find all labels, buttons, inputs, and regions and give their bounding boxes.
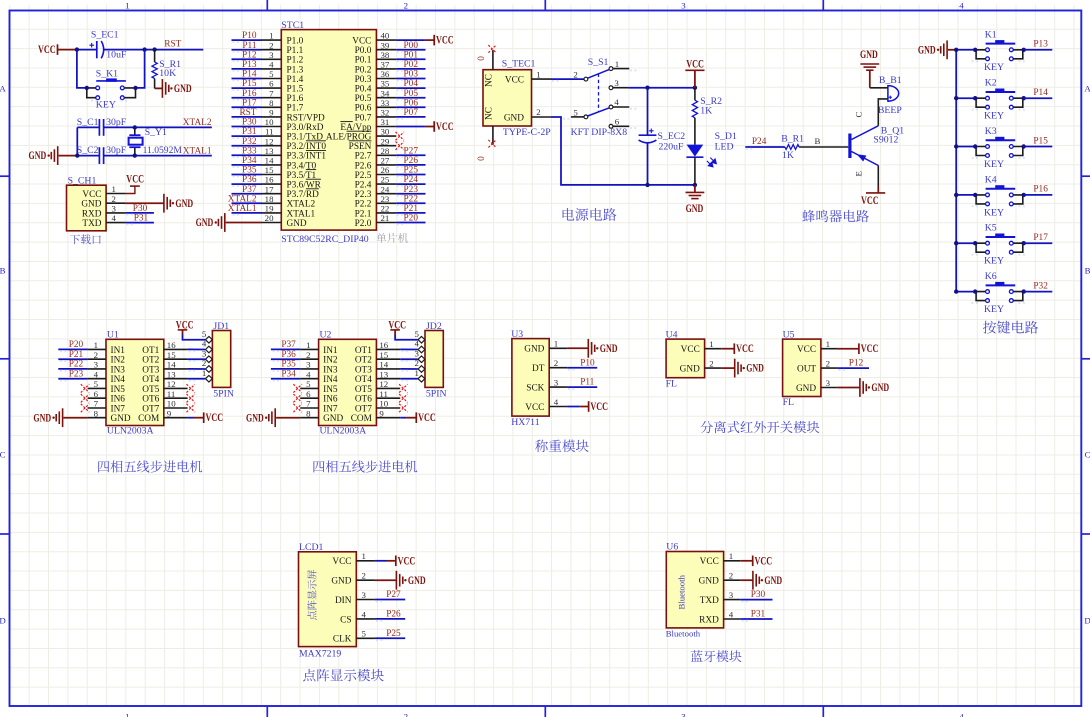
wire P16	[1024, 194, 1053, 196]
svg-text:30pF: 30pF	[106, 117, 127, 128]
svg-text:KEY: KEY	[96, 99, 116, 110]
svg-text:P16: P16	[242, 89, 257, 99]
svg-text:VCC: VCC	[525, 403, 544, 413]
junction	[954, 48, 958, 52]
svg-text:5PIN: 5PIN	[213, 389, 234, 400]
svg-text:P0.0: P0.0	[355, 46, 372, 56]
svg-text:P1.0: P1.0	[287, 37, 304, 47]
svg-text:P25: P25	[404, 166, 419, 176]
svg-text:5: 5	[573, 107, 578, 117]
svg-text:A: A	[1084, 83, 1090, 93]
STC1 left pins	[262, 31, 282, 223]
junction	[954, 96, 958, 100]
wire	[694, 118, 696, 145]
svg-text:22: 22	[381, 204, 390, 214]
svg-text:1: 1	[826, 339, 830, 349]
svg-text:OT2: OT2	[142, 356, 159, 366]
svg-text:IN4: IN4	[111, 375, 126, 385]
power port VCC (STC1 pin40)	[396, 35, 454, 47]
svg-text:P37: P37	[242, 185, 257, 195]
svg-text:P2.2: P2.2	[355, 200, 372, 210]
svg-text:P1.4: P1.4	[287, 75, 304, 85]
junction	[693, 183, 697, 187]
svg-text:CLK: CLK	[333, 635, 352, 645]
svg-text:4: 4	[959, 0, 964, 10]
svg-text:IN3: IN3	[323, 365, 338, 375]
label 称重模块	[535, 440, 589, 452]
svg-text:OT7: OT7	[142, 404, 159, 414]
transistor B_Q1 S9012	[848, 112, 904, 177]
svg-text:5: 5	[306, 379, 311, 389]
capacitor S_EC2	[639, 88, 686, 185]
STC1 right net wires and labels	[396, 41, 425, 225]
svg-text:P01: P01	[404, 50, 419, 60]
svg-text:OT3: OT3	[355, 365, 372, 375]
svg-text:10: 10	[167, 399, 176, 409]
svg-text:FL: FL	[666, 378, 677, 389]
junction	[1022, 144, 1026, 148]
svg-text:2: 2	[362, 571, 366, 581]
svg-text:A: A	[0, 83, 6, 93]
svg-text:36: 36	[381, 69, 390, 79]
svg-text:GND: GND	[699, 577, 719, 587]
svg-text:IN1: IN1	[323, 346, 338, 356]
svg-text:TYPE-C-2P: TYPE-C-2P	[503, 127, 551, 138]
svg-text:S_TEC1: S_TEC1	[502, 59, 536, 70]
svg-text:GND: GND	[174, 83, 192, 95]
svg-text:C: C	[854, 112, 864, 118]
ground GND (S_CH1 pin2)	[126, 194, 193, 213]
svg-text:6: 6	[269, 79, 274, 89]
junction	[1022, 48, 1026, 52]
module U4 FL	[666, 329, 722, 389]
svg-text:5PIN: 5PIN	[426, 389, 447, 400]
svg-text:28: 28	[381, 146, 390, 156]
svg-text:MAX7219: MAX7219	[299, 648, 341, 659]
junction	[142, 47, 146, 51]
svg-text:OT2: OT2	[355, 356, 372, 366]
junction	[973, 96, 977, 100]
junction	[133, 153, 137, 157]
svg-text:P16: P16	[1033, 185, 1048, 195]
svg-text:OT4: OT4	[142, 375, 159, 385]
svg-text:10: 10	[265, 117, 274, 127]
svg-text:15: 15	[379, 350, 388, 360]
svg-text:Bluetooth: Bluetooth	[666, 629, 701, 639]
svg-text:P2.7: P2.7	[355, 152, 372, 162]
svg-text:CS: CS	[340, 615, 351, 625]
svg-text:4: 4	[729, 609, 734, 619]
ground GND (U3 pin1)	[567, 339, 617, 358]
svg-text:IN1: IN1	[111, 346, 126, 356]
power port VCC (buzzer)	[861, 187, 885, 207]
svg-text:11: 11	[167, 389, 176, 399]
svg-text:C: C	[1085, 449, 1090, 459]
svg-text:25: 25	[381, 175, 390, 185]
svg-text:13: 13	[265, 146, 274, 156]
svg-text:9: 9	[167, 408, 172, 418]
wire P31	[740, 619, 772, 621]
STC1 right pins	[376, 31, 396, 223]
svg-text:16: 16	[167, 340, 176, 350]
svg-text:3: 3	[614, 78, 619, 88]
wire P31	[126, 223, 154, 225]
svg-text:10K: 10K	[159, 68, 176, 79]
svg-text:COM: COM	[351, 414, 372, 424]
svg-text:KEY: KEY	[984, 207, 1004, 218]
svg-text:OT5: OT5	[355, 385, 372, 395]
svg-text:P23: P23	[404, 185, 419, 195]
svg-text:P0.3: P0.3	[355, 75, 372, 85]
svg-text:P30: P30	[242, 118, 257, 128]
svg-text:RST: RST	[164, 40, 181, 50]
no-ERC markers outputs 12-10	[399, 384, 407, 412]
junction	[75, 153, 79, 157]
power port VCC (LCD1 pin1)	[375, 555, 415, 567]
svg-text:P21: P21	[69, 350, 84, 360]
ground GND (buzzer)	[860, 49, 879, 88]
svg-text:7: 7	[269, 88, 274, 98]
svg-text:P0.2: P0.2	[355, 65, 372, 75]
svg-text:GND: GND	[918, 44, 936, 56]
svg-text:VCC: VCC	[398, 555, 416, 567]
svg-text:8: 8	[269, 98, 274, 108]
svg-text:38: 38	[381, 50, 390, 60]
ground GND (U1 pin8)	[33, 408, 87, 427]
svg-text:P26: P26	[386, 610, 401, 620]
svg-text:11.0592M: 11.0592M	[143, 145, 183, 156]
svg-text:XTAL1: XTAL1	[183, 146, 212, 156]
S_TEC1 top pin with no-ERC	[488, 45, 496, 70]
svg-text:VCC: VCC	[755, 555, 773, 567]
svg-text:S_S1: S_S1	[588, 57, 609, 68]
svg-text:P0.6: P0.6	[355, 104, 372, 114]
svg-text:P24: P24	[404, 175, 419, 185]
svg-text:P04: P04	[404, 79, 419, 89]
svg-text:31: 31	[381, 117, 390, 127]
svg-text:2: 2	[269, 40, 273, 50]
svg-text:D: D	[1084, 615, 1090, 625]
svg-text:12: 12	[167, 379, 176, 389]
svg-text:ULN2003A: ULN2003A	[320, 425, 367, 436]
wire	[956, 97, 975, 99]
svg-text:30: 30	[381, 127, 390, 137]
svg-text:VCC: VCC	[418, 412, 436, 424]
svg-text:VCC: VCC	[861, 343, 879, 355]
svg-text:2: 2	[536, 107, 540, 117]
svg-text:2: 2	[554, 358, 558, 368]
svg-text:XTAL2: XTAL2	[228, 194, 257, 204]
svg-text:B: B	[0, 265, 6, 275]
svg-text:P13: P13	[1033, 40, 1048, 50]
svg-text:0: 0	[477, 56, 487, 61]
svg-text:P36: P36	[281, 350, 296, 360]
svg-text:P20: P20	[69, 340, 84, 350]
svg-text:13: 13	[167, 369, 176, 379]
svg-text:P25: P25	[386, 629, 401, 639]
svg-text:3: 3	[826, 378, 831, 388]
wire RST	[104, 49, 203, 51]
svg-text:BEEP: BEEP	[878, 105, 902, 116]
wire	[551, 79, 584, 81]
power port VCC (U3 pin4)	[567, 401, 608, 413]
wire	[136, 50, 145, 88]
svg-text:9: 9	[269, 108, 274, 118]
svg-text:P31: P31	[134, 214, 149, 224]
wire P17	[1024, 242, 1053, 244]
svg-text:33: 33	[381, 98, 390, 108]
key K1	[972, 29, 1027, 73]
svg-text:27: 27	[381, 156, 390, 166]
svg-text:RST/VPD: RST/VPD	[287, 113, 326, 123]
capacitor S_C2	[77, 145, 127, 164]
svg-text:1: 1	[615, 59, 619, 69]
svg-text:P11: P11	[580, 378, 594, 388]
key K2	[972, 78, 1027, 122]
svg-text:IN2: IN2	[111, 356, 126, 366]
svg-text:GND: GND	[871, 382, 889, 394]
junction	[645, 183, 649, 187]
svg-text:C: C	[0, 449, 6, 459]
svg-text:2: 2	[404, 712, 408, 717]
ground GND (U5 pin3)	[838, 378, 890, 397]
svg-text:VCC: VCC	[861, 195, 879, 207]
svg-text:P12: P12	[849, 359, 864, 369]
svg-text:S_Y1: S_Y1	[145, 127, 167, 138]
svg-text:26: 26	[381, 165, 390, 175]
label 电源电路	[563, 208, 617, 221]
ground GND (reset)	[155, 79, 192, 98]
svg-text:KEY: KEY	[984, 62, 1004, 73]
ground GND (STC1 pin20)	[196, 213, 262, 232]
svg-text:P1.1: P1.1	[287, 46, 304, 56]
svg-text:P21: P21	[404, 204, 419, 214]
svg-text:220uF: 220uF	[659, 142, 685, 153]
svg-text:35: 35	[381, 79, 390, 89]
svg-text:4: 4	[554, 397, 559, 407]
svg-text:OT7: OT7	[355, 404, 372, 414]
U1 input wires	[58, 340, 87, 381]
crystal S_Y1	[129, 127, 183, 156]
wire	[694, 157, 696, 185]
svg-text:16: 16	[265, 175, 274, 185]
label 按键电路	[983, 321, 1038, 334]
svg-text:P2.5: P2.5	[355, 171, 372, 181]
svg-text:VCC: VCC	[332, 557, 351, 567]
svg-text:P37: P37	[281, 340, 296, 350]
junction	[973, 48, 977, 52]
junction	[645, 86, 649, 90]
svg-text:13: 13	[379, 369, 388, 379]
svg-text:KEY: KEY	[984, 159, 1004, 170]
wire P30	[740, 600, 772, 602]
U2 right pins	[376, 340, 400, 418]
resistor S_R1	[152, 50, 181, 80]
svg-text:GND: GND	[287, 219, 307, 229]
connector S_TEC1 TYPE-C	[483, 59, 536, 127]
wire P14	[1024, 97, 1053, 99]
svg-text:P34: P34	[281, 369, 296, 379]
svg-text:20: 20	[265, 213, 274, 223]
svg-text:2: 2	[729, 571, 733, 581]
key K5	[972, 223, 1027, 267]
svg-text:14: 14	[379, 360, 388, 370]
svg-text:P31: P31	[751, 610, 766, 620]
U2 input wires	[271, 340, 300, 381]
svg-text:P3.3/INT1: P3.3/INT1	[287, 152, 327, 162]
wire emitter	[877, 166, 879, 187]
svg-text:P0.5: P0.5	[355, 94, 372, 104]
svg-text:IN7: IN7	[323, 404, 338, 414]
svg-text:3: 3	[306, 360, 311, 370]
ground GND (LCD1 pin2)	[375, 571, 426, 590]
svg-text:3: 3	[362, 590, 367, 600]
U2 output wires to JD2	[400, 349, 418, 380]
svg-text:P0.4: P0.4	[355, 85, 372, 95]
svg-text:12: 12	[379, 379, 388, 389]
svg-text:P35: P35	[281, 360, 296, 370]
svg-text:K5: K5	[985, 223, 997, 234]
no-ERC markers outputs 12-10	[187, 384, 195, 412]
junction	[75, 47, 79, 51]
power port VCC (supply)	[685, 58, 704, 87]
svg-text:1K: 1K	[782, 150, 794, 161]
svg-text:P27: P27	[404, 146, 419, 156]
svg-text:GND: GND	[29, 150, 47, 162]
capacitor S_C1	[77, 117, 127, 136]
svg-text:P2.4: P2.4	[355, 181, 372, 191]
svg-text:4: 4	[94, 369, 99, 379]
svg-text:GND: GND	[246, 412, 264, 424]
svg-text:K6: K6	[985, 271, 997, 282]
svg-text:8: 8	[306, 408, 311, 418]
wire P15	[1024, 146, 1053, 148]
wire	[77, 50, 87, 88]
svg-text:IN6: IN6	[323, 395, 338, 405]
U1 right pins	[164, 340, 188, 418]
svg-text:4: 4	[362, 609, 367, 619]
svg-text:IN3: IN3	[111, 365, 126, 375]
wire	[77, 155, 99, 157]
svg-text:5: 5	[202, 329, 207, 339]
ground GND (U6 pin2)	[740, 571, 782, 590]
svg-text:VCC: VCC	[352, 37, 371, 47]
svg-text:XTAL1: XTAL1	[287, 209, 316, 219]
svg-text:3: 3	[681, 712, 686, 717]
svg-text:P27: P27	[386, 590, 401, 600]
svg-text:Bluetooth: Bluetooth	[677, 574, 687, 609]
svg-text:GND: GND	[600, 343, 618, 355]
svg-text:P06: P06	[404, 98, 419, 108]
svg-text:XTAL2: XTAL2	[287, 200, 316, 210]
switch S_S1	[563, 57, 637, 128]
wire P11	[567, 387, 597, 389]
power port VCC (S_CH1 pin1)	[126, 174, 144, 194]
svg-text:FL: FL	[783, 397, 794, 408]
svg-text:VCC: VCC	[505, 76, 524, 86]
svg-text:OT4: OT4	[355, 375, 372, 385]
svg-text:OT6: OT6	[142, 395, 159, 405]
svg-text:PSEN: PSEN	[349, 142, 372, 152]
junction	[693, 86, 697, 90]
svg-text:S_C1: S_C1	[77, 117, 99, 128]
svg-text:2: 2	[306, 350, 310, 360]
svg-text:9: 9	[379, 408, 384, 418]
svg-text:P23: P23	[69, 369, 84, 379]
wire P12	[838, 368, 869, 370]
label 蓝牙模块	[691, 650, 742, 662]
svg-text:32: 32	[381, 108, 390, 118]
junction	[133, 125, 137, 129]
svg-text:GND: GND	[111, 414, 131, 424]
svg-text:OT3: OT3	[142, 365, 159, 375]
module LCD1 MAX7219	[299, 542, 375, 659]
svg-text:OUT: OUT	[797, 365, 816, 375]
junction	[85, 86, 89, 90]
power port VCC (JD1 pin5)	[176, 320, 205, 340]
svg-text:P0.7: P0.7	[355, 113, 372, 123]
svg-text:DIN: DIN	[335, 596, 352, 606]
label 分离式红外开关模块	[700, 421, 819, 433]
svg-text:8: 8	[94, 408, 99, 418]
svg-text:VCC: VCC	[686, 58, 704, 70]
svg-text:2: 2	[94, 350, 98, 360]
svg-text:21: 21	[381, 213, 390, 223]
switch S_K1	[87, 69, 136, 111]
junction	[954, 193, 958, 197]
svg-text:3: 3	[554, 378, 559, 388]
svg-text:P1.2: P1.2	[287, 56, 304, 66]
svg-text:14: 14	[167, 360, 176, 370]
no-ERC markers inputs 5-7	[293, 384, 301, 412]
svg-text:5: 5	[414, 329, 419, 339]
STC1 left net wires and labels	[228, 31, 262, 215]
svg-text:KEY: KEY	[984, 256, 1004, 267]
svg-text:VCC: VCC	[590, 401, 608, 413]
svg-text:S9012: S9012	[873, 135, 898, 146]
svg-text:1: 1	[554, 339, 558, 349]
svg-text:IN5: IN5	[323, 385, 338, 395]
svg-text:GND: GND	[504, 113, 524, 123]
svg-text:XTAL1: XTAL1	[228, 204, 257, 214]
comment 单片机	[376, 233, 408, 243]
svg-text:GND: GND	[408, 575, 426, 587]
svg-text:P17: P17	[1033, 233, 1048, 243]
IC STC1 STC89C52RC_DIP40	[281, 20, 376, 230]
wire	[956, 49, 975, 51]
svg-text:3: 3	[112, 204, 117, 214]
U1 output wires to JD1	[188, 349, 206, 380]
wire	[956, 291, 975, 293]
wire	[956, 146, 975, 148]
svg-text:KEY: KEY	[984, 111, 1004, 122]
wire XTAL1	[104, 155, 212, 157]
svg-text:S_K1: S_K1	[96, 69, 118, 80]
svg-text:1: 1	[709, 339, 713, 349]
svg-text:24: 24	[381, 184, 390, 194]
svg-text:5: 5	[362, 629, 367, 639]
power port VCC (JD2 pin5)	[388, 320, 417, 340]
svg-text:3: 3	[729, 590, 734, 600]
svg-text:RXD: RXD	[699, 615, 719, 625]
svg-text:4: 4	[269, 60, 274, 70]
svg-text:4: 4	[614, 97, 619, 107]
svg-text:18: 18	[265, 194, 274, 204]
svg-text:1: 1	[306, 340, 310, 350]
svg-text:B: B	[1085, 265, 1090, 275]
svg-text:OT1: OT1	[355, 346, 372, 356]
svg-text:5: 5	[94, 379, 99, 389]
